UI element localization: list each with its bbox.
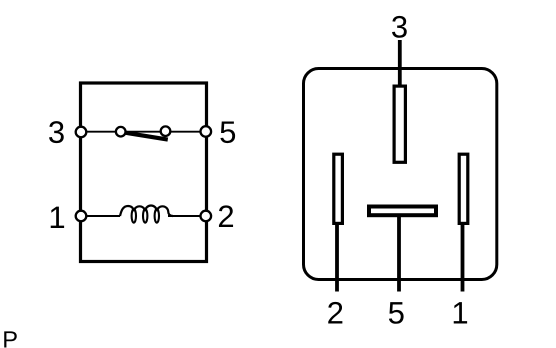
relay schematic box K1 [81,83,207,262]
figure caption P [4,331,17,347]
label pin 5 [389,302,404,324]
coil loop b [143,209,147,223]
label pin 1 [454,302,467,323]
wire switch row [81,131,206,133]
label terminal 1 [51,207,64,228]
pin 1 lead wire [461,223,465,292]
coil loop c [155,209,159,223]
label terminal 3 [49,121,64,143]
terminal 3 [76,127,87,138]
pin 5 slot [369,207,436,216]
pin 2 lead wire [335,223,339,292]
label pin 2 [328,302,342,324]
switch blade [123,132,168,139]
label pin 3 [392,16,407,38]
wire coil row [81,215,120,217]
label terminal 5 [220,121,235,143]
switch contact right [161,126,171,136]
terminal 1 [76,211,87,222]
switch contact left [116,127,126,137]
label terminal 2 [219,205,233,227]
connector body outline [304,69,497,280]
pin 5 lead wire [397,215,401,292]
pin 1 slot [459,154,468,223]
pin 3 slot [394,86,405,162]
coil L1 [120,206,173,217]
pin 3 lead wire [398,40,402,88]
coil loop a [132,209,136,223]
terminal 2 [201,211,212,222]
pin 2 slot [334,154,343,223]
terminal 5 [201,126,212,137]
